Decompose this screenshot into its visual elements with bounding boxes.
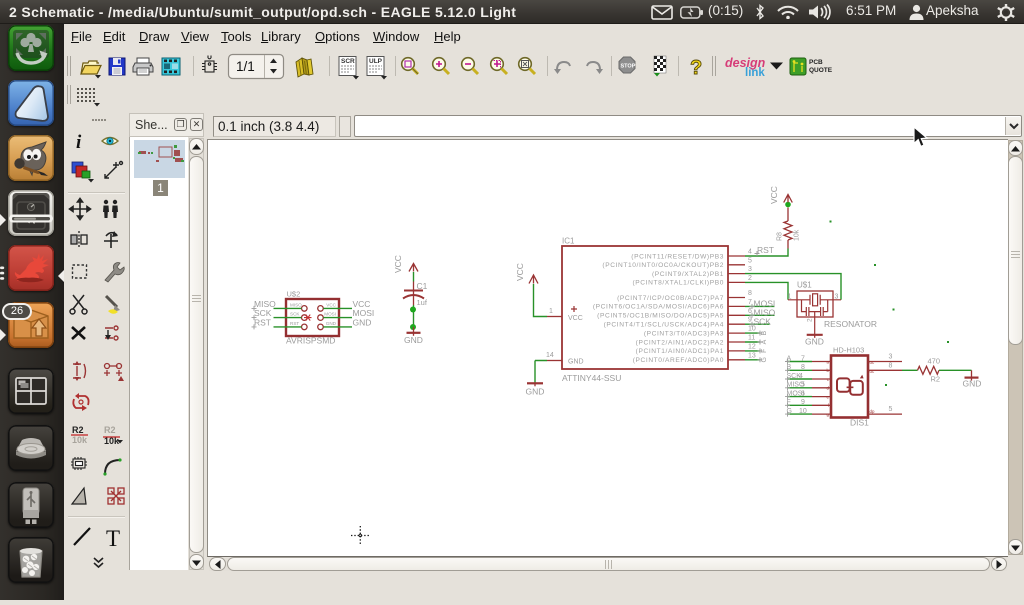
svg-text:VCC: VCC <box>515 263 525 281</box>
svg-text:R2: R2 <box>931 375 941 384</box>
svg-text:QUOTE: QUOTE <box>809 67 833 74</box>
svg-text:AVRISPSMD: AVRISPSMD <box>286 336 335 346</box>
svg-text:SCR: SCR <box>341 58 355 65</box>
svg-text:6: 6 <box>748 308 752 315</box>
svg-text:4: 4 <box>799 373 803 380</box>
svg-text:11: 11 <box>748 335 755 342</box>
svg-text:DIS1: DIS1 <box>850 418 869 428</box>
svg-text:STOP: STOP <box>621 64 636 70</box>
svg-text:SCK: SCK <box>754 316 772 326</box>
svg-text:i: i <box>76 132 82 153</box>
svg-text:(PCINT8/XTAL1/CLKI)PB0: (PCINT8/XTAL1/CLKI)PB0 <box>633 280 725 287</box>
svg-text:GND: GND <box>805 337 824 347</box>
svg-text:10: 10 <box>799 408 807 415</box>
svg-text:GND: GND <box>526 387 545 397</box>
svg-text:7: 7 <box>801 355 805 362</box>
svg-text:2: 2 <box>807 318 814 322</box>
svg-text:13: 13 <box>748 352 756 359</box>
svg-text:GND: GND <box>326 321 337 326</box>
svg-text:5: 5 <box>889 406 893 413</box>
svg-text:10k: 10k <box>72 435 88 445</box>
svg-text:RST: RST <box>254 318 271 328</box>
svg-text:oc: oc <box>870 360 875 365</box>
svg-text:MISO: MISO <box>290 303 302 308</box>
svg-text:8: 8 <box>801 364 805 371</box>
svg-text:(PCINT4/T1/SCL/USCK/ADC4)PA4: (PCINT4/T1/SCL/USCK/ADC4)PA4 <box>604 322 724 329</box>
svg-text:(PCINT9/XTAL2)PB1: (PCINT9/XTAL2)PB1 <box>652 271 724 278</box>
svg-text:(PCINT7/ICP/OC0B/ADC7)PA7: (PCINT7/ICP/OC0B/ADC7)PA7 <box>617 295 724 302</box>
svg-text:8: 8 <box>748 290 752 297</box>
svg-text:RST: RST <box>757 245 774 255</box>
svg-text:14: 14 <box>546 352 554 359</box>
svg-text:R2: R2 <box>104 425 116 435</box>
svg-text:(PCINT5/OC1B/MISO/DO/ADC5)PA5: (PCINT5/OC1B/MISO/DO/ADC5)PA5 <box>597 313 724 320</box>
svg-text:R8: R8 <box>777 232 784 241</box>
svg-text:5: 5 <box>748 257 752 264</box>
svg-text:1: 1 <box>549 308 553 315</box>
svg-text:GND: GND <box>404 335 423 345</box>
svg-text:VCC: VCC <box>568 315 583 322</box>
svg-text:IC1: IC1 <box>562 237 575 246</box>
svg-text:10k: 10k <box>794 229 801 241</box>
svg-text:6: 6 <box>801 390 805 397</box>
svg-text:(PCINT6/OC1A/SDA/MOSI/ADC6)PA6: (PCINT6/OC1A/SDA/MOSI/ADC6)PA6 <box>593 304 724 311</box>
svg-text:4: 4 <box>748 249 752 256</box>
svg-text:1/1: 1/1 <box>236 59 255 74</box>
svg-text:ULP: ULP <box>369 58 383 65</box>
svg-text:9: 9 <box>801 399 805 406</box>
svg-text:2: 2 <box>748 275 752 282</box>
svg-text:R2: R2 <box>72 425 84 435</box>
svg-text:5: 5 <box>801 382 805 389</box>
svg-text:HD-H103: HD-H103 <box>833 346 864 355</box>
svg-text:470: 470 <box>928 357 941 366</box>
svg-text:U$1: U$1 <box>797 281 812 290</box>
svg-text:dp: dp <box>870 409 875 414</box>
svg-text:3: 3 <box>889 354 893 361</box>
svg-text:(PCINT10/INT0/OC0A/CKOUT)PB2: (PCINT10/INT0/OC0A/CKOUT)PB2 <box>602 262 724 269</box>
svg-text:GND: GND <box>963 379 982 389</box>
svg-text:1uf: 1uf <box>417 298 428 307</box>
svg-text:oc: oc <box>870 369 875 374</box>
svg-text:(PCINT11/RESET/DW)PB3: (PCINT11/RESET/DW)PB3 <box>631 253 724 260</box>
svg-text:(PCINT2/AIN1/ADC2)PA2: (PCINT2/AIN1/ADC2)PA2 <box>636 339 724 346</box>
svg-text:7: 7 <box>748 299 752 306</box>
svg-text:MOSI: MOSI <box>324 312 336 317</box>
svg-text:GND: GND <box>353 318 372 328</box>
svg-text:T: T <box>106 526 120 551</box>
svg-text:VCC: VCC <box>769 186 779 204</box>
svg-text:(PCINT1/AIN0/ADC1)PA1: (PCINT1/AIN0/ADC1)PA1 <box>636 348 724 355</box>
svg-text:link: link <box>745 67 765 79</box>
svg-text:10k: 10k <box>104 436 120 446</box>
svg-text:12: 12 <box>748 343 756 350</box>
svg-text:9: 9 <box>748 317 752 324</box>
svg-text:8: 8 <box>889 362 893 369</box>
svg-text:RESONATOR: RESONATOR <box>824 319 877 329</box>
svg-text:(PCINT3/T0/ADC3)PA3: (PCINT3/T0/ADC3)PA3 <box>644 330 724 337</box>
svg-text:PCB: PCB <box>809 59 823 66</box>
svg-text:3: 3 <box>748 266 752 273</box>
svg-text:ATTINY44-SSU: ATTINY44-SSU <box>562 373 621 383</box>
svg-text:?: ? <box>690 57 702 79</box>
svg-text:GND: GND <box>568 359 584 366</box>
svg-text:RST: RST <box>290 321 299 326</box>
svg-text:U$2: U$2 <box>287 290 301 299</box>
svg-text:SCK: SCK <box>290 312 300 317</box>
svg-text:(PCINT0/AREF/ADC0)PA0: (PCINT0/AREF/ADC0)PA0 <box>633 357 724 364</box>
svg-text:VCC: VCC <box>393 255 403 273</box>
svg-text:VCC: VCC <box>326 303 336 308</box>
